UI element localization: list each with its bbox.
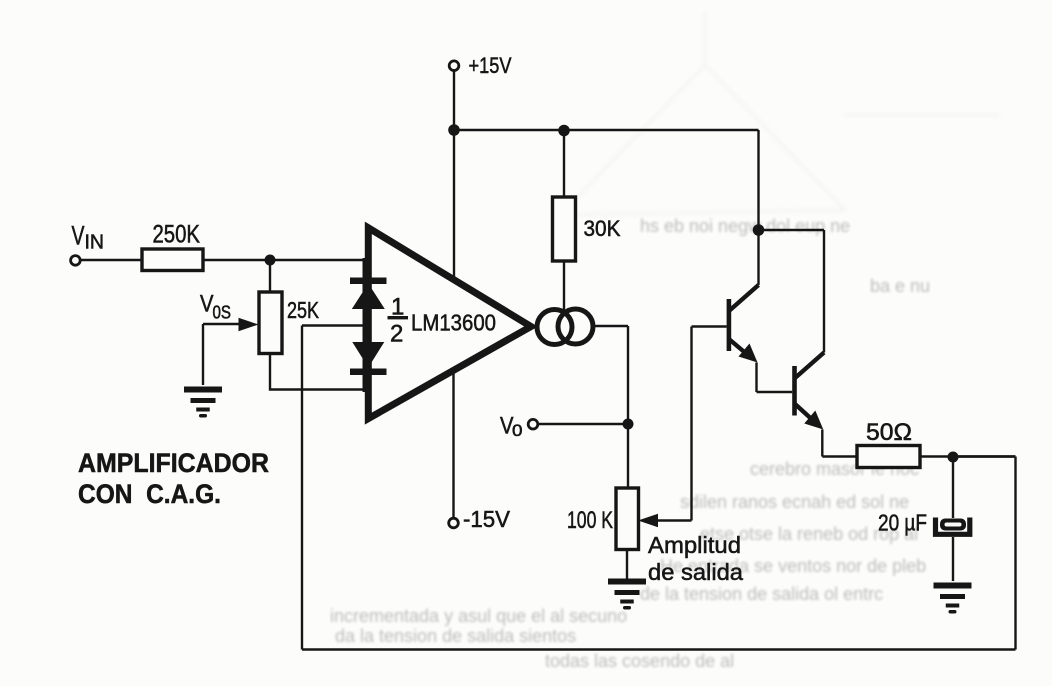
svg-text:hs eb noi negw dol eup ne: hs eb noi negw dol eup ne — [640, 216, 850, 236]
svg-text:250K: 250K — [153, 221, 201, 249]
svg-text:de salida: de salida — [648, 559, 743, 585]
svg-text:sdilen ranos ecnah ed sol ne: sdilen ranos ecnah ed sol ne — [680, 492, 909, 512]
svg-text:todas las cosendo de al: todas las cosendo de al — [545, 651, 734, 671]
svg-text:30K: 30K — [584, 216, 621, 241]
svg-text:100 K: 100 K — [567, 507, 613, 534]
svg-text:0: 0 — [512, 421, 523, 440]
svg-text:ba e nu: ba e nu — [870, 276, 930, 296]
svg-text:V: V — [200, 291, 214, 318]
svg-text:da la tension de salida siento: da la tension de salida sientos — [335, 626, 576, 646]
svg-text:25K: 25K — [287, 297, 320, 323]
svg-text:+15V: +15V — [469, 53, 512, 78]
svg-text:50Ω: 50Ω — [866, 419, 912, 446]
svg-text:-15V: -15V — [463, 506, 511, 532]
svg-text:de la tension de salida ol ent: de la tension de salida ol entrc — [640, 584, 883, 604]
svg-text:AMPLIFICADOR: AMPLIFICADOR — [78, 448, 269, 478]
svg-text:V: V — [72, 221, 85, 251]
svg-text:incrementada y asul que el al: incrementada y asul que el al secuno — [330, 606, 627, 626]
svg-text:0S: 0S — [213, 303, 232, 323]
svg-text:IN: IN — [85, 232, 105, 254]
svg-text:CON C.A.G.: CON C.A.G. — [78, 479, 221, 509]
svg-text:Amplitud: Amplitud — [648, 532, 741, 558]
svg-text:LM13600: LM13600 — [411, 310, 496, 336]
svg-text:20 µF: 20 µF — [878, 510, 927, 536]
svg-text:2: 2 — [390, 321, 403, 348]
